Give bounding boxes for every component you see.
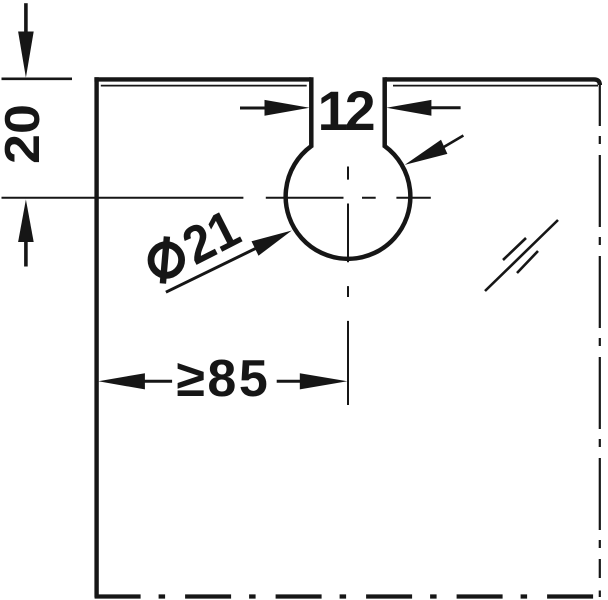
svg-text:20: 20 (0, 104, 49, 164)
svg-text:12: 12 (318, 80, 376, 142)
svg-text:≥85: ≥85 (176, 350, 268, 408)
svg-text:21: 21 (173, 198, 249, 275)
